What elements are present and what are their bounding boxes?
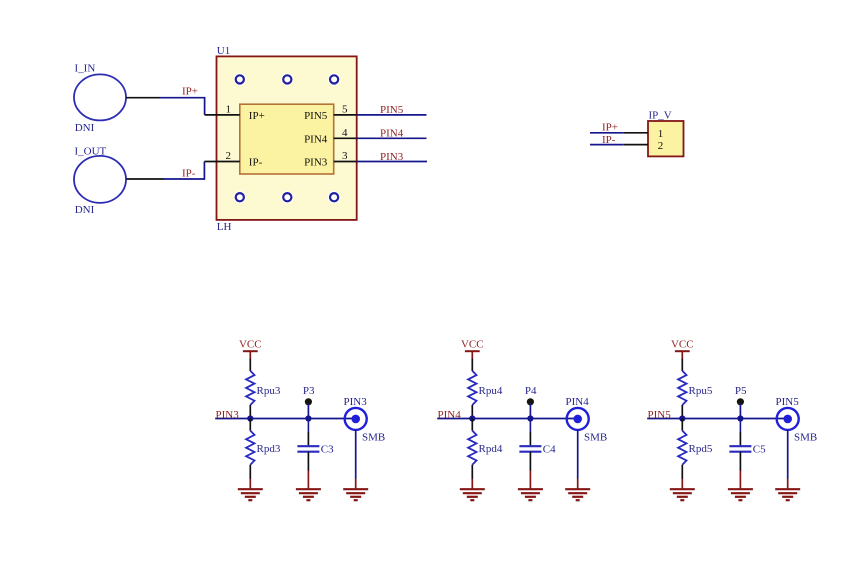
pin name PIN5 (304, 110, 328, 122)
pin Rpu3 bottom (249, 405, 251, 419)
pin Rpd3 bottom (249, 465, 251, 479)
svg-text:PIN5: PIN5 (380, 104, 404, 116)
pin number 1 IP_V (658, 128, 664, 140)
svg-text:IP-: IP- (182, 167, 196, 179)
U1 inner block (240, 104, 334, 174)
resistor Rpu3 (246, 371, 254, 405)
resistor Rpu5 (678, 371, 686, 405)
svg-text:IP-: IP- (602, 134, 616, 146)
comment SMB (circuit 5) (794, 431, 817, 443)
label DNI (I_IN) (75, 122, 95, 134)
wire PIN4 net (437, 418, 576, 420)
label P3 (303, 385, 315, 397)
pin 4 (334, 137, 357, 139)
comment SMB (circuit 3) (362, 431, 385, 443)
svg-text:C4: C4 (543, 443, 556, 455)
svg-text:VCC: VCC (239, 339, 262, 351)
label I_OUT (75, 146, 107, 158)
designator PIN3 (SMB) (344, 396, 368, 408)
pin number 1 (226, 104, 232, 116)
svg-text:IP+: IP+ (602, 122, 618, 134)
pin C5 bottom (739, 452, 741, 471)
label C4 (543, 443, 556, 455)
label Rpd5 (689, 443, 713, 455)
junction at P4 (527, 415, 533, 421)
net label IP- (IP_V) (602, 134, 616, 146)
comment SMB (circuit 4) (584, 431, 607, 443)
svg-text:Rpd5: Rpd5 (689, 443, 713, 455)
IC U1 body (217, 56, 357, 220)
net label PIN3 (216, 409, 240, 421)
wire PIN3 net (215, 418, 354, 420)
svg-text:SMB: SMB (794, 431, 817, 443)
svg-text:I_IN: I_IN (75, 63, 96, 75)
label P5 (735, 385, 747, 397)
stub P3 (307, 404, 309, 419)
wire PIN3 (357, 161, 427, 163)
wire SMB4 to ground (577, 430, 579, 479)
mounting hole 6 (328, 191, 340, 203)
pin name IP+ (249, 110, 265, 122)
mounting hole 4 (234, 191, 246, 203)
svg-text:DNI: DNI (75, 204, 95, 216)
resistor Rpd4 (468, 431, 476, 465)
svg-text:P3: P3 (303, 385, 315, 397)
net label PIN5 (380, 104, 404, 116)
svg-text:PIN5: PIN5 (648, 409, 672, 421)
wire to C4 (529, 419, 531, 433)
connector IP_V body (648, 121, 684, 156)
junction at P3 (305, 415, 311, 421)
label I_IN (75, 63, 96, 75)
label C3 (321, 443, 334, 455)
svg-text:DNI: DNI (75, 122, 95, 134)
pin C3 top (307, 432, 309, 445)
pin I_OUT (126, 178, 164, 180)
designator PIN4 (SMB) (566, 396, 590, 408)
ground (SMB4) (565, 478, 590, 500)
designator IP_V (649, 110, 672, 122)
pin 3 (334, 161, 357, 163)
stub P4 (529, 404, 531, 419)
svg-text:C5: C5 (753, 443, 766, 455)
svg-text:IP+: IP+ (182, 85, 198, 97)
wire to C5 (739, 419, 741, 433)
power port VCC (circuit 3) (239, 339, 262, 359)
ground (Rpd5) (670, 479, 695, 500)
junction at Rpu3 (247, 415, 253, 421)
pin name PIN4 (304, 133, 328, 145)
svg-text:PIN3: PIN3 (216, 409, 240, 421)
svg-text:PIN3: PIN3 (304, 157, 328, 169)
resistor Rpu4 (468, 371, 476, 405)
pin C3 bottom (307, 452, 309, 471)
pin name PIN3 (304, 157, 328, 169)
pin Rpd4 top (471, 419, 473, 431)
svg-text:SMB: SMB (584, 431, 607, 443)
ground (SMB5) (775, 478, 800, 500)
svg-text:4: 4 (342, 127, 348, 139)
svg-text:2: 2 (226, 150, 232, 162)
wire IP- (IP_V) (590, 144, 624, 146)
net label IP- (182, 167, 196, 179)
net label PIN3 (380, 151, 404, 163)
pin 2 IP_V (624, 144, 648, 146)
label C5 (753, 443, 766, 455)
svg-text:PIN4: PIN4 (304, 133, 328, 145)
ground (Rpd4) (460, 479, 485, 500)
svg-text:3: 3 (342, 150, 348, 162)
svg-text:LH: LH (217, 221, 232, 233)
svg-text:Rpu5: Rpu5 (689, 385, 713, 397)
wire PIN5 net (647, 418, 786, 420)
connector PIN5 SMB (777, 408, 799, 430)
wire to C3 (307, 419, 309, 433)
wire IP+ (IP_V) (590, 132, 624, 134)
pin name IP- (249, 157, 263, 169)
test point P4 (527, 398, 534, 405)
pin number 2 IP_V (658, 140, 664, 152)
capacitor C4 (519, 446, 541, 452)
svg-text:Rpu4: Rpu4 (479, 385, 503, 397)
pin C4 top (529, 432, 531, 445)
mounting hole 5 (281, 191, 293, 203)
test point P5 (737, 398, 744, 405)
svg-text:I_OUT: I_OUT (75, 146, 107, 158)
test point P3 (305, 398, 312, 405)
net label PIN4 (438, 409, 462, 421)
connector PIN3 SMB (345, 408, 367, 430)
pin number 4 (342, 127, 348, 139)
svg-text:PIN4: PIN4 (380, 128, 404, 140)
connector I_IN (74, 74, 126, 120)
mounting hole 1 (234, 73, 246, 85)
svg-text:PIN5: PIN5 (776, 396, 800, 408)
resistor Rpd5 (678, 431, 686, 465)
svg-text:VCC: VCC (461, 339, 484, 351)
pin Rpu4 bottom (471, 405, 473, 419)
wire PIN4 (357, 137, 427, 139)
svg-text:IP+: IP+ (249, 110, 265, 122)
junction at P5 (737, 415, 743, 421)
net label PIN4 (380, 128, 404, 140)
svg-text:Rpd4: Rpd4 (479, 443, 503, 455)
power port VCC (circuit 4) (461, 339, 484, 359)
capacitor C3 (297, 446, 319, 452)
pin 1 (205, 114, 240, 116)
pin Rpd5 bottom (681, 465, 683, 479)
label P4 (525, 385, 537, 397)
pin Rpu3 top (249, 359, 251, 372)
pin number 2 (226, 150, 232, 162)
power port VCC (circuit 5) (671, 339, 694, 359)
svg-text:PIN4: PIN4 (438, 409, 462, 421)
label Rpu5 (689, 385, 713, 397)
pin Rpu4 top (471, 359, 473, 372)
comment LH (217, 221, 232, 233)
wire IP- (164, 162, 205, 180)
mounting hole 2 (281, 73, 293, 85)
svg-text:PIN3: PIN3 (380, 151, 404, 163)
net label PIN5 (648, 409, 672, 421)
label Rpu3 (257, 385, 281, 397)
wire PIN5 (357, 114, 427, 116)
ground (Rpd3) (238, 479, 263, 500)
svg-text:SMB: SMB (362, 431, 385, 443)
label Rpu4 (479, 385, 503, 397)
junction at Rpu5 (679, 415, 685, 421)
pin 1 IP_V (624, 132, 648, 134)
pin I_IN (126, 97, 160, 99)
svg-text:Rpu3: Rpu3 (257, 385, 281, 397)
svg-text:Rpd3: Rpd3 (257, 443, 281, 455)
svg-text:P4: P4 (525, 385, 537, 397)
pin Rpd3 top (249, 419, 251, 431)
connector I_OUT (74, 156, 126, 203)
pin number 3 (342, 150, 348, 162)
wire IP+ (160, 98, 205, 115)
pin C4 bottom (529, 452, 531, 471)
svg-text:PIN3: PIN3 (344, 396, 368, 408)
ground (SMB3) (343, 478, 368, 500)
resistor Rpd3 (246, 431, 254, 465)
label Rpd4 (479, 443, 503, 455)
capacitor C5 (729, 446, 751, 452)
net label IP+ (IP_V) (602, 122, 618, 134)
designator PIN5 (SMB) (776, 396, 800, 408)
pin Rpd5 top (681, 419, 683, 431)
svg-text:2: 2 (658, 140, 664, 152)
pin Rpu5 bottom (681, 405, 683, 419)
pin Rpu5 top (681, 359, 683, 372)
pin C5 top (739, 432, 741, 445)
designator U1 (217, 45, 230, 57)
net label IP+ (182, 85, 198, 97)
svg-text:1: 1 (658, 128, 664, 140)
pin Rpd4 bottom (471, 465, 473, 479)
label Rpd3 (257, 443, 281, 455)
ground (C5) (728, 471, 753, 501)
junction at Rpu4 (469, 415, 475, 421)
svg-text:5: 5 (342, 104, 348, 116)
pin 5 (334, 114, 357, 116)
label DNI (I_OUT) (75, 204, 95, 216)
svg-text:C3: C3 (321, 443, 334, 455)
svg-text:IP_V: IP_V (649, 110, 672, 122)
ground (C4) (518, 471, 543, 501)
svg-text:PIN4: PIN4 (566, 396, 590, 408)
svg-text:U1: U1 (217, 45, 230, 57)
ground (C3) (296, 471, 321, 501)
pin number 5 (342, 104, 348, 116)
svg-text:PIN5: PIN5 (304, 110, 328, 122)
wire SMB3 to ground (355, 430, 357, 479)
svg-text:VCC: VCC (671, 339, 694, 351)
connector PIN4 SMB (567, 408, 589, 430)
mounting hole 3 (328, 73, 340, 85)
wire SMB5 to ground (787, 430, 789, 479)
svg-text:P5: P5 (735, 385, 747, 397)
pin 2 (204, 161, 239, 163)
svg-text:IP-: IP- (249, 157, 263, 169)
stub P5 (739, 404, 741, 419)
svg-text:1: 1 (226, 104, 232, 116)
